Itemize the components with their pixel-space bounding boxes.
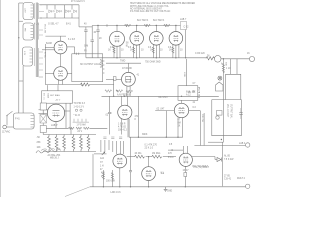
coupling line bbox=[129, 136, 183, 138]
wire: V6 right lead bbox=[67, 73, 72, 75]
AC entry box bbox=[13, 113, 34, 129]
tube V1 (output) bbox=[110, 31, 125, 46]
svg-text:100K: 100K bbox=[183, 72, 185, 78]
meter M1 bbox=[214, 56, 221, 63]
svg-text:1K 47: 1K 47 bbox=[183, 170, 190, 172]
svg-text:100 41.2: 100 41.2 bbox=[118, 130, 128, 132]
tube V6 (rectifier) bbox=[54, 67, 68, 81]
svg-text:27 85: 27 85 bbox=[224, 176, 230, 178]
svg-text:B 41: B 41 bbox=[66, 23, 71, 25]
diode D1 bbox=[49, 10, 52, 13]
svg-text:1K: 1K bbox=[108, 50, 111, 52]
svg-text:4 D 1 C: 4 D 1 C bbox=[43, 93, 45, 100]
wire: V13 right lead bbox=[65, 110, 70, 112]
wire: drop from V7 input bbox=[113, 79, 115, 96]
wire: V8 top leads bbox=[121, 96, 123, 105]
wire: V5 top lead bbox=[60, 36, 62, 41]
svg-text:HIGH SIDE OF ALL VOLTAGE MEASU: HIGH SIDE OF ALL VOLTAGE MEASUREMENTS RE… bbox=[130, 2, 195, 5]
svg-text:7.5 K 4W: 7.5 K 4W bbox=[224, 159, 234, 161]
wire: V9 top lead bbox=[181, 100, 183, 103]
wires: V13 left leads bbox=[39, 109, 48, 111]
wire: lower link line bbox=[45, 84, 80, 86]
svg-text:350-0-350: 350-0-350 bbox=[44, 24, 46, 34]
svg-text:4 L 6: 4 L 6 bbox=[34, 23, 40, 25]
tube V2 drop bbox=[136, 26, 138, 32]
grid box above V9 bbox=[178, 86, 198, 101]
wire: left drop to coupling line bbox=[165, 111, 167, 138]
wire: V5-V6 link bbox=[60, 54, 62, 67]
transformer left winding bbox=[34, 3, 36, 19]
svg-text:.02 .047: .02 .047 bbox=[156, 109, 165, 111]
transformer box 3 bbox=[23, 47, 33, 66]
node: rail junction bbox=[18, 37, 19, 38]
wire: V8 bottom leads bbox=[121, 119, 123, 135]
svg-text:1K: 1K bbox=[130, 50, 133, 52]
svg-text:10K: 10K bbox=[37, 147, 42, 149]
svg-text:P.N 4: P.N 4 bbox=[168, 157, 174, 159]
filter cap C3 bbox=[97, 26, 99, 31]
winding taps bbox=[39, 4, 42, 6]
svg-text:OUTPUT BAL: OUTPUT BAL bbox=[229, 104, 232, 119]
scan left edge bbox=[0, 0, 2, 197]
svg-text:22K 2W: 22K 2W bbox=[201, 114, 203, 123]
svg-text:6L6 7027A: 6L6 7027A bbox=[153, 19, 165, 22]
svg-text:J 10: J 10 bbox=[226, 68, 231, 70]
resistor RG1 bbox=[135, 155, 145, 158]
svg-text:P 41: P 41 bbox=[15, 119, 20, 121]
transformer box texts bbox=[23, 8, 50, 100]
tube V13 (bias) bbox=[47, 104, 64, 121]
label box bbox=[181, 22, 187, 30]
svg-text:22 K 1.0: 22 K 1.0 bbox=[145, 148, 154, 150]
wire: drop from V8 left bbox=[128, 119, 130, 137]
rail right end drop bbox=[185, 30, 187, 58]
resistor RB4 bbox=[72, 135, 75, 152]
wire to output jack bbox=[221, 58, 249, 60]
cap left of V8 bbox=[109, 96, 111, 112]
svg-text:GND: GND bbox=[167, 191, 172, 193]
svg-text:TOL UNIT: TOL UNIT bbox=[158, 97, 169, 99]
wire: V9 left lead bbox=[155, 110, 174, 112]
fuse F1 bbox=[3, 125, 7, 129]
pot in module bbox=[217, 111, 223, 116]
svg-text:1 FG AM: 1 FG AM bbox=[77, 123, 86, 126]
svg-text:P.N (TO) MULT: P.N (TO) MULT bbox=[193, 166, 209, 168]
ticks on box top bbox=[75, 53, 77, 55]
wire: into V12 left bbox=[168, 149, 183, 151]
wire: V9 right lead bbox=[189, 110, 201, 112]
svg-text:LAB 4 0.6: LAB 4 0.6 bbox=[111, 191, 122, 194]
tube V2 cathode leads bbox=[133, 45, 135, 58]
output module outline bbox=[212, 74, 242, 135]
filter cap C1 bbox=[85, 27, 87, 30]
terminal J3 bbox=[246, 184, 250, 188]
wires: V9 bottom leads bbox=[177, 117, 179, 137]
svg-text:0.1 47K 270: 0.1 47K 270 bbox=[145, 145, 158, 147]
wire: V6 bottom leads bbox=[57, 80, 59, 85]
wire: V13 bottom lead bbox=[55, 122, 57, 129]
svg-text:TWD: TWD bbox=[120, 60, 126, 62]
cap left of V11 bbox=[130, 137, 132, 170]
svg-text:1 H: 1 H bbox=[100, 166, 104, 168]
diagonal wire to bus bbox=[65, 187, 90, 197]
svg-text:47K: 47K bbox=[101, 173, 106, 175]
svg-text:1K: 1K bbox=[178, 126, 181, 128]
diode D3 bbox=[66, 10, 69, 13]
bottom ground bus bbox=[90, 186, 222, 188]
rectifier verticals bbox=[46, 5, 48, 10]
svg-text:AT 06L80: AT 06L80 bbox=[122, 67, 132, 70]
bias feed vertical bbox=[221, 142, 223, 186]
wire: V5 right lead bbox=[67, 46, 75, 48]
svg-text:4K RG: 4K RG bbox=[135, 153, 142, 155]
feedback network box bbox=[72, 54, 103, 82]
svg-text:1K: 1K bbox=[169, 50, 172, 52]
wires into bias box bbox=[47, 85, 49, 91]
resistor RB2 bbox=[55, 135, 58, 152]
resistor inside box right bbox=[100, 59, 102, 68]
svg-text:WITH LINE VOLTAGE 1 1.8 VAC TO: WITH LINE VOLTAGE 1 1.8 VAC TOL bbox=[130, 5, 169, 8]
transformer right winding bbox=[38, 3, 40, 19]
svg-text:25K: 25K bbox=[37, 142, 42, 144]
wire: drop to V9 box bbox=[186, 59, 188, 86]
tube V8 bbox=[118, 105, 132, 119]
svg-text:0M: 0M bbox=[178, 123, 181, 125]
tube V4 cathode leads bbox=[172, 45, 174, 58]
resistor R17 bbox=[81, 83, 90, 86]
svg-text:VOL 10 OUT: VOL 10 OUT bbox=[226, 104, 228, 118]
V10 bottom leads bbox=[119, 168, 121, 187]
tube V2 (output) bbox=[130, 32, 144, 46]
resistor RG2 bbox=[152, 155, 162, 158]
caps on drop lines bbox=[103, 137, 122, 138]
screen resistors on rail bbox=[125, 24, 170, 26]
svg-text:P.A TOW AAG JRZ TO OUT VOLTS A: P.A TOW AAG JRZ TO OUT VOLTS AC bbox=[130, 10, 171, 13]
resistor RB3 bbox=[63, 135, 66, 152]
heater rail bbox=[102, 95, 219, 97]
tube V4 drop bbox=[175, 26, 177, 32]
tube V1 cathode leads bbox=[113, 45, 115, 58]
svg-text:S-M: S-M bbox=[84, 46, 88, 48]
tube V1 drop bbox=[116, 26, 118, 32]
svg-text:WB 26 J: WB 26 J bbox=[50, 157, 59, 159]
tube V7 (driver) bbox=[121, 72, 135, 86]
svg-text:6.3V: 6.3V bbox=[23, 51, 25, 56]
signal line right of V10 bbox=[127, 156, 135, 158]
wire: lower jumper bbox=[19, 80, 23, 82]
wire: mid jumper bbox=[19, 20, 23, 22]
wire into diode bbox=[192, 156, 215, 158]
wires: down from V9 right bbox=[199, 111, 201, 146]
resistor RB1 bbox=[48, 135, 51, 152]
resistor RB6 bbox=[87, 135, 90, 152]
B+ rail bbox=[92, 25, 180, 27]
ground symbol bbox=[164, 187, 168, 192]
cathode resistors below tubes bbox=[113, 47, 174, 53]
wire: right of V8 bbox=[137, 96, 139, 137]
rectifier bottom rail bbox=[40, 17, 79, 19]
svg-text:6 x 6.8: 6 x 6.8 bbox=[68, 39, 76, 41]
signature scribble bbox=[36, 149, 61, 153]
svg-text:5V 3A: 5V 3A bbox=[44, 52, 47, 58]
bias cap box bbox=[40, 126, 46, 133]
wire: rectifier out to filter bbox=[78, 18, 80, 27]
bias column bbox=[42, 103, 44, 134]
svg-text:A.N FEED: A.N FEED bbox=[117, 94, 128, 97]
balance network verticals bbox=[65, 103, 67, 128]
bias divider bottom rail bbox=[43, 151, 96, 153]
svg-text:NO INTERNAL SIGS USED AT: NO INTERNAL SIGS USED AT bbox=[130, 8, 162, 11]
cap at module right bbox=[240, 108, 242, 113]
svg-text:C R9 120: C R9 120 bbox=[195, 53, 205, 55]
tube V11 bbox=[142, 167, 156, 181]
cathode bus bbox=[86, 57, 206, 59]
wire: top line over V7 bbox=[106, 62, 141, 64]
drops from caps cluster to bottom tubes bbox=[100, 140, 102, 152]
svg-text:LAB 4: LAB 4 bbox=[239, 142, 246, 145]
diode D2 bbox=[57, 10, 60, 13]
wire: V12 top leads bbox=[182, 146, 184, 154]
resistor on HT line bbox=[222, 64, 224, 73]
wire: top jumper to transformer box bbox=[19, 2, 23, 4]
diode D5 bbox=[217, 158, 221, 162]
svg-text:100 6.8K: 100 6.8K bbox=[106, 181, 116, 183]
svg-text:6L6 7027A: 6L6 7027A bbox=[137, 19, 149, 22]
tube V9 bbox=[174, 103, 188, 117]
svg-text:1M RG1: 1M RG1 bbox=[152, 153, 161, 155]
terminal J2 bbox=[246, 143, 250, 147]
output jack J1 bbox=[249, 56, 254, 61]
pot wiper bbox=[94, 153, 107, 155]
bottom right corner line bbox=[208, 141, 223, 143]
svg-text:SET BIAS: SET BIAS bbox=[50, 94, 60, 97]
lamp DS1 bbox=[218, 76, 222, 80]
vertical text in can bbox=[226, 104, 232, 119]
transformer T1 primary box 1 bbox=[23, 3, 33, 20]
tube V3 cathode leads bbox=[152, 45, 154, 58]
tube V4 (output) bbox=[169, 32, 183, 46]
wire: V11 top lead bbox=[148, 157, 150, 167]
svg-text:LAB P: LAB P bbox=[51, 124, 58, 127]
wire: left AC rail bbox=[18, 3, 20, 111]
filter cap C2 bbox=[91, 26, 93, 41]
svg-text:1 41 6.3 V: 1 41 6.3 V bbox=[74, 107, 85, 109]
svg-text:C.B 41: C.B 41 bbox=[224, 179, 232, 181]
svg-text:1 0.6 R: 1 0.6 R bbox=[118, 124, 126, 126]
diode D4 bbox=[74, 10, 77, 13]
balance output line bbox=[44, 127, 69, 129]
thermistor housing bbox=[216, 82, 224, 91]
transformer box 2 bbox=[23, 23, 33, 40]
svg-text:115V: 115V bbox=[24, 8, 26, 13]
selenium rectifier bbox=[40, 115, 47, 124]
tube V3 (output) bbox=[150, 32, 164, 46]
svg-text:LAB 7: LAB 7 bbox=[180, 18, 187, 21]
right HT line down bbox=[222, 59, 224, 142]
svg-text:56K: 56K bbox=[225, 62, 227, 66]
plate resistor above V8 bbox=[105, 90, 112, 92]
svg-text:NO OUTPUT LOAD: NO OUTPUT LOAD bbox=[80, 63, 101, 66]
bias resistor box bbox=[40, 103, 46, 110]
V11 bottom lead bbox=[148, 181, 150, 187]
tube V3 drop bbox=[155, 26, 157, 32]
speaker terminal line bbox=[194, 145, 245, 147]
ticks on box right bbox=[103, 60, 105, 62]
B+ rail ticks bbox=[126, 24, 128, 26]
transformer core bbox=[35, 3, 37, 78]
svg-text:750 OHM 1WD: 750 OHM 1WD bbox=[145, 62, 161, 64]
svg-text:117VAC: 117VAC bbox=[2, 131, 11, 134]
rectifier top rail bbox=[40, 4, 79, 6]
tube V10 bbox=[113, 154, 127, 168]
coupling cap to V7 bbox=[106, 78, 113, 80]
resistor R meter bbox=[206, 57, 214, 60]
cathode resistors under V10 bbox=[102, 173, 104, 180]
svg-text:390K: 390K bbox=[142, 134, 148, 136]
vertical text V8 right bbox=[183, 62, 227, 123]
svg-text:6AN8: 6AN8 bbox=[46, 42, 52, 45]
tube V5 bbox=[54, 41, 67, 54]
svg-text:4T 6 GA2 6 V: 4T 6 GA2 6 V bbox=[71, 0, 85, 3]
svg-text:24 V: 24 V bbox=[77, 131, 82, 133]
svg-text:TO PIN 6.3: TO PIN 6.3 bbox=[74, 103, 86, 105]
bias divider top rail bbox=[43, 134, 96, 136]
tube V12 bbox=[179, 153, 192, 166]
resistor below V12 bbox=[184, 173, 187, 177]
balance network terminal marks bbox=[73, 109, 89, 122]
bias adjust box bbox=[42, 91, 73, 103]
svg-text:PRI: PRI bbox=[24, 28, 26, 32]
svg-text:AL 85: AL 85 bbox=[224, 154, 231, 157]
power switch S1 bbox=[7, 111, 13, 115]
svg-text:4.7K 82: 4.7K 82 bbox=[118, 127, 127, 129]
wire: rail into box bbox=[18, 111, 20, 113]
svg-text:* 41 R: * 41 R bbox=[74, 115, 81, 117]
svg-text:G SEL 4.7: G SEL 4.7 bbox=[48, 23, 59, 25]
svg-text:12A: 12A bbox=[100, 157, 105, 160]
svg-text:1K: 1K bbox=[150, 50, 153, 52]
stubs to output line bbox=[230, 59, 232, 75]
svg-text:-41 V: -41 V bbox=[55, 100, 61, 102]
wire: V7 top lead bbox=[127, 63, 129, 72]
wire: V7 bottom leads bbox=[126, 86, 128, 96]
bottom right bus bbox=[222, 186, 245, 188]
resistor RB5 bbox=[80, 135, 83, 152]
drop from pot to bus bbox=[92, 154, 94, 187]
svg-text:MULT 2: MULT 2 bbox=[237, 178, 246, 180]
wire: left leads of V5/V6 bbox=[45, 47, 54, 49]
